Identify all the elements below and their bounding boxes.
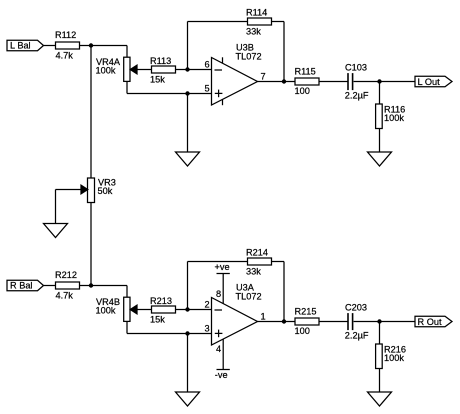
wire feedback to output (272, 261, 285, 263)
op-amp U3B TL072 (212, 58, 258, 106)
capacitor C103 2.2µF (347, 73, 349, 90)
svg-text:8: 8 (216, 289, 221, 299)
node non-inverting junction (185, 91, 189, 95)
wire L input node to R input node (90, 46, 92, 286)
svg-text:R112: R112 (55, 30, 76, 40)
svg-text:15k: 15k (150, 75, 165, 85)
svg-text:TL072: TL072 (236, 52, 262, 62)
resistor R114 33k (248, 18, 272, 25)
wire VR4A wiper (137, 69, 152, 71)
potentiometer VR4B 100k (124, 297, 130, 321)
svg-text:-ve: -ve (215, 370, 228, 380)
svg-text:100k: 100k (96, 305, 116, 315)
resistor R212 4.7k (56, 282, 80, 289)
wire non-inverting input (127, 333, 212, 335)
wire to ground (187, 94, 189, 153)
svg-text:2.2µF: 2.2µF (345, 90, 369, 100)
svg-text:L Out: L Out (418, 77, 441, 87)
svg-text:5: 5 (205, 84, 210, 94)
wire VR4B bottom lead (126, 321, 128, 333)
svg-text:2.2µF: 2.2µF (345, 330, 369, 340)
svg-text:100: 100 (295, 86, 310, 96)
svg-text:+ve: +ve (215, 262, 230, 272)
potentiometer VR3 50k (88, 178, 95, 203)
svg-text:R212: R212 (55, 270, 77, 280)
capacitor C203 2.2µF (347, 313, 349, 330)
node inverting junction (185, 67, 189, 71)
resistor R115 100 (295, 78, 319, 85)
svg-text:50k: 50k (98, 186, 113, 196)
svg-text:R114: R114 (246, 8, 267, 18)
wire (43, 285, 56, 287)
svg-text:2: 2 (205, 300, 210, 310)
wire R116 to ground (379, 129, 381, 153)
svg-text:33k: 33k (246, 266, 261, 276)
wire R216 to ground (379, 369, 381, 393)
svg-text:3: 3 (205, 324, 210, 334)
ground (176, 392, 200, 406)
svg-text:7: 7 (261, 72, 266, 82)
wire (319, 81, 348, 83)
svg-text:4.7k: 4.7k (56, 290, 74, 300)
wire non-inverting input (127, 93, 212, 95)
ground (368, 152, 392, 166)
connector R Bal (7, 280, 44, 290)
wire VR4B top lead (126, 286, 128, 298)
wire VR4B wiper (137, 309, 152, 311)
svg-text:100k: 100k (96, 65, 116, 75)
ground (176, 152, 200, 166)
resistor R216 100k (379, 322, 381, 345)
wire (80, 45, 128, 47)
connector L Out (415, 76, 452, 86)
svg-text:100k: 100k (384, 353, 404, 363)
resistor R213 15k (152, 306, 176, 313)
svg-text:L Bal: L Bal (10, 41, 31, 51)
wire to ground (187, 334, 189, 393)
wire feedback to output (272, 21, 285, 23)
svg-text:4: 4 (216, 344, 221, 354)
connector R Out (415, 316, 452, 326)
svg-text:100k: 100k (384, 113, 404, 123)
svg-text:C203: C203 (345, 303, 367, 313)
wire VR4A bottom lead (126, 81, 128, 93)
wire inverting input (176, 69, 212, 71)
svg-text:R215: R215 (295, 307, 317, 317)
svg-text:R Out: R Out (418, 317, 442, 327)
svg-text:TL072: TL072 (236, 292, 262, 302)
node output junction (282, 79, 286, 83)
wire output (258, 321, 296, 323)
wire VR3 wiper to ground (56, 189, 82, 191)
svg-text:4.7k: 4.7k (56, 50, 74, 60)
ground (44, 224, 68, 238)
wire (354, 321, 415, 323)
wire (354, 81, 415, 83)
svg-text:R Bal: R Bal (10, 281, 32, 291)
wire output (258, 81, 296, 83)
svg-text:R115: R115 (295, 67, 316, 77)
svg-text:R113: R113 (150, 56, 171, 66)
node R Bal junction (89, 283, 93, 287)
resistor R116 100k (379, 82, 381, 105)
node inverting junction (185, 307, 189, 311)
ground (368, 392, 392, 406)
wire (43, 45, 56, 47)
resistor R113 15k (152, 66, 176, 73)
connector L Bal (7, 40, 44, 50)
wire (319, 321, 348, 323)
supply -ve U3A pin 4 (222, 339, 224, 370)
resistor R112 4.7k (56, 42, 80, 49)
node output junction (282, 319, 286, 323)
svg-text:R214: R214 (246, 248, 268, 258)
resistor R214 33k (248, 258, 272, 265)
node non-inverting junction (185, 331, 189, 335)
wire (80, 285, 128, 287)
svg-text:15k: 15k (150, 315, 165, 325)
svg-text:1: 1 (261, 312, 266, 322)
svg-text:R213: R213 (150, 296, 172, 306)
svg-text:C103: C103 (345, 63, 367, 73)
potentiometer VR4A 100k (124, 57, 130, 81)
wire feedback (187, 22, 189, 70)
resistor R215 100 (295, 318, 319, 325)
svg-text:100: 100 (295, 326, 310, 336)
svg-text:6: 6 (205, 60, 210, 70)
wire inverting input (176, 309, 212, 311)
node output cap junction (377, 79, 381, 83)
op-amp U3A TL072 (212, 298, 258, 346)
wire feedback (187, 262, 189, 310)
node L Bal junction (89, 43, 93, 47)
svg-text:33k: 33k (246, 26, 261, 36)
wire VR4A top lead (126, 46, 128, 58)
node output cap junction (377, 319, 381, 323)
